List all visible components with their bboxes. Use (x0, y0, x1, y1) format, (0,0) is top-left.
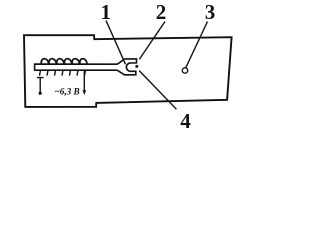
bimetal strip (35, 63, 118, 71)
right supply wire (83, 71, 85, 91)
svg-text:4: 4 (180, 109, 191, 132)
left supply wire (37, 78, 44, 92)
terminal circle 3 (182, 68, 187, 73)
svg-text:2: 2 (156, 0, 167, 24)
svg-text:1: 1 (101, 0, 112, 24)
leader line 3 (186, 22, 208, 68)
left supply terminal dot (39, 92, 42, 95)
svg-text:~6,3 В: ~6,3 В (55, 86, 80, 96)
contact dot 4 (135, 65, 138, 68)
relay body outline (24, 35, 232, 107)
contact fork with C-notch (117, 59, 136, 75)
right supply arrowhead (83, 90, 87, 95)
heater coil turns (41, 59, 87, 64)
svg-text:3: 3 (205, 0, 216, 24)
leader line 1 (106, 21, 126, 65)
leader line 4 (139, 71, 176, 110)
leader line 2 (139, 22, 165, 60)
coil return wires under strip (40, 71, 86, 76)
